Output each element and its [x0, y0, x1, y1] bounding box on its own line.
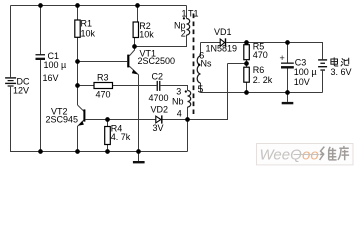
svg-text:VD2: VD2 — [151, 105, 169, 115]
svg-text:5: 5 — [198, 84, 204, 96]
svg-text:R3: R3 — [97, 73, 109, 83]
svg-text:470: 470 — [96, 90, 111, 100]
svg-text:1N5819: 1N5819 — [206, 43, 238, 53]
svg-text:16V: 16V — [43, 73, 59, 83]
svg-text:4: 4 — [177, 108, 182, 118]
svg-text:2: 2 — [181, 28, 186, 38]
svg-text:R6: R6 — [253, 65, 265, 75]
svg-text:R1: R1 — [81, 19, 93, 29]
svg-text:10k: 10k — [139, 30, 154, 40]
svg-text:100 µ: 100 µ — [294, 67, 317, 77]
svg-text:1: 1 — [182, 8, 187, 18]
svg-text:470: 470 — [253, 50, 268, 60]
svg-text:4700: 4700 — [149, 93, 169, 103]
svg-text:12V: 12V — [13, 85, 29, 95]
svg-text:3V: 3V — [153, 123, 164, 133]
svg-text:4. 7k: 4. 7k — [111, 132, 131, 142]
svg-text:10V: 10V — [294, 77, 310, 87]
svg-text:Ns: Ns — [201, 59, 212, 69]
svg-text:2SC2500: 2SC2500 — [138, 56, 176, 66]
svg-text:VD1: VD1 — [214, 27, 232, 37]
svg-text:2. 2k: 2. 2k — [253, 75, 273, 85]
svg-text:100 µ: 100 µ — [44, 60, 67, 70]
svg-text:C2: C2 — [152, 71, 164, 81]
svg-text:Nb: Nb — [172, 97, 184, 107]
svg-text:+: + — [280, 53, 285, 63]
svg-text:10k: 10k — [81, 29, 96, 39]
svg-text:2SC945: 2SC945 — [46, 115, 79, 125]
svg-text:3. 6V: 3. 6V — [331, 67, 352, 77]
svg-text:C3: C3 — [295, 57, 307, 67]
svg-text:3: 3 — [176, 87, 181, 97]
svg-text:T1: T1 — [188, 8, 199, 18]
